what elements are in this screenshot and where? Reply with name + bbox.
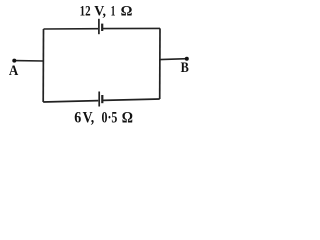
svg-text:Ω: Ω [122, 110, 133, 127]
svg-text:V,: V, [83, 110, 95, 127]
svg-text:6: 6 [74, 110, 81, 127]
svg-text:1: 1 [111, 4, 116, 20]
svg-text:V,: V, [94, 4, 106, 20]
svg-text:A: A [9, 63, 19, 79]
svg-text:0·5: 0·5 [102, 110, 118, 127]
svg-text:12: 12 [80, 4, 91, 20]
svg-text:B: B [181, 60, 189, 76]
svg-text:Ω: Ω [121, 4, 133, 20]
